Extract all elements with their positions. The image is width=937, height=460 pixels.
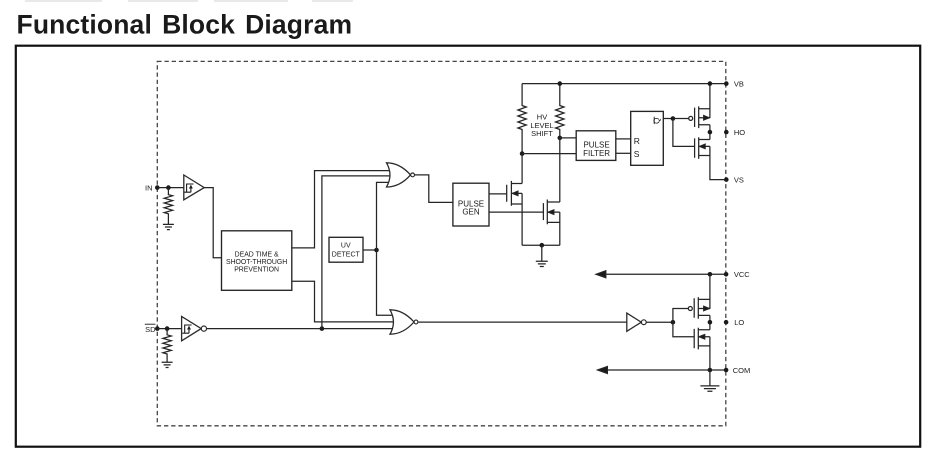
node COM tap: [708, 368, 713, 373]
wire NOR2 output to LO inverter: [418, 321, 627, 323]
ground IN: [163, 224, 174, 229]
wire NOR1 output to pulse gen: [415, 175, 453, 203]
wire Q net to QH gate: [673, 119, 695, 147]
svg-text:GEN: GEN: [462, 208, 480, 217]
pin VB: [724, 81, 729, 86]
node VB tap: [708, 81, 713, 86]
svg-text:HO: HO: [734, 128, 745, 137]
wire latch Q to gates: [663, 118, 688, 120]
node LO: [708, 320, 713, 325]
ground COM: [700, 370, 719, 391]
pin VCC: [724, 272, 729, 277]
wire inverter out: [646, 321, 673, 323]
wire VB rail: [522, 83, 726, 85]
node source rail: [540, 243, 545, 248]
svg-text:Functional Block Diagram: Functional Block Diagram: [17, 9, 353, 39]
transistor M1 (level shift): [507, 181, 522, 245]
wire SD inverter output to NOR2: [207, 328, 396, 330]
pin HO: [724, 130, 729, 135]
svg-text:UV: UV: [341, 243, 351, 250]
wire UV net to NOR2: [377, 250, 396, 315]
wire pulse filter R to latch: [616, 138, 631, 140]
svg-text:IN: IN: [145, 183, 153, 192]
svg-text:DETECT: DETECT: [332, 251, 361, 258]
wire UV detect output: [363, 249, 377, 251]
wire SD net to NOR1 input: [322, 176, 391, 329]
node LO gate net: [671, 320, 676, 325]
svg-text:VCC: VCC: [734, 270, 750, 279]
schmitt buffer U-IN: [184, 175, 204, 200]
svg-text:SHOOT-THROUGH: SHOOT-THROUGH: [226, 259, 287, 266]
ground level shift: [536, 245, 548, 266]
wire gate net to QL-P: [673, 309, 688, 323]
svg-text:S: S: [634, 149, 640, 159]
ground SD: [162, 362, 173, 367]
svg-text:FILTER: FILTER: [583, 149, 610, 158]
resistor R-SD: [163, 329, 171, 363]
svg-text:SHIFT: SHIFT: [531, 129, 553, 138]
IC boundary (dashed): [157, 61, 726, 425]
transistor M2 (level shift): [543, 200, 559, 246]
wire level shift source rail: [522, 244, 560, 246]
transistor QH-N (high side NMOS): [695, 132, 727, 180]
gate NOR1 (high side): [387, 163, 415, 187]
wire R2 node to pulse filter: [560, 137, 576, 139]
svg-text:PREVENTION: PREVENTION: [234, 266, 279, 273]
svg-text:VB: VB: [734, 79, 744, 88]
wire pulse filter S to latch: [616, 152, 631, 154]
wire R1 node to pulse filter: [522, 153, 576, 155]
wire gate net to QL-N: [673, 322, 694, 337]
schmitt inverter U-SD: [182, 316, 207, 340]
wire VCC rail with arrow: [596, 271, 726, 278]
wire R1 node down to M1 drain: [521, 154, 523, 184]
block pulse gen: [453, 183, 489, 226]
svg-text:VS: VS: [734, 176, 744, 185]
node SD net junction: [320, 326, 325, 331]
svg-text:R: R: [634, 136, 640, 146]
node R2 drain: [558, 136, 563, 141]
wire dead-time top output to NOR1: [292, 171, 391, 248]
node SD junction: [165, 326, 170, 331]
wire SD to schmitt: [157, 328, 181, 330]
wire pulse gen out B to M2 gate: [489, 211, 543, 213]
gate NOR2 (low side): [390, 310, 418, 334]
node Q net: [671, 116, 676, 121]
resistor R-IN: [164, 188, 172, 225]
svg-text:DEAD TIME &: DEAD TIME &: [235, 252, 279, 259]
node R2 rail tap: [558, 81, 563, 86]
block dead time & shoot-through prevention: [222, 231, 292, 290]
node IN junction: [166, 185, 171, 190]
latch RS: [631, 111, 664, 165]
svg-text:HV: HV: [537, 112, 547, 121]
pin VS: [724, 177, 729, 182]
block UV detect: [329, 237, 363, 262]
transistor QH-P (high side PMOS): [689, 84, 710, 133]
transistor QL-P (low side PMOS): [688, 274, 710, 322]
svg-text:LO: LO: [734, 318, 744, 327]
wire dead-time bottom output to NOR2: [292, 281, 395, 322]
svg-text:SD: SD: [145, 325, 156, 334]
wire IN to schmitt: [157, 187, 184, 189]
pin COM: [724, 368, 729, 373]
pin SD label (with overbar): [145, 324, 156, 334]
node HO: [708, 130, 713, 135]
label HV level shift: [530, 112, 553, 137]
inverter LO driver: [627, 313, 646, 331]
wire UV net to NOR1: [377, 182, 392, 250]
wire pulse gen out A to M1 gate: [489, 193, 507, 195]
node VCC tap: [708, 272, 713, 277]
node R1 drain: [520, 151, 525, 156]
wire schmitt-IN to dead time block: [204, 188, 221, 258]
resistor R2 (level shift right): [556, 84, 564, 138]
svg-text:COM: COM: [733, 366, 751, 375]
wire COM rail with arrow: [598, 367, 727, 374]
transistor QL-N (low side NMOS): [694, 322, 710, 370]
node IN pin: [155, 185, 160, 190]
pin LO: [724, 320, 729, 325]
resistor R1 (level shift left): [518, 84, 526, 154]
wire R2 node down to M2 drain: [559, 138, 561, 202]
node SD pin: [155, 326, 160, 331]
node UV net: [374, 248, 379, 253]
block pulse filter: [576, 131, 616, 161]
